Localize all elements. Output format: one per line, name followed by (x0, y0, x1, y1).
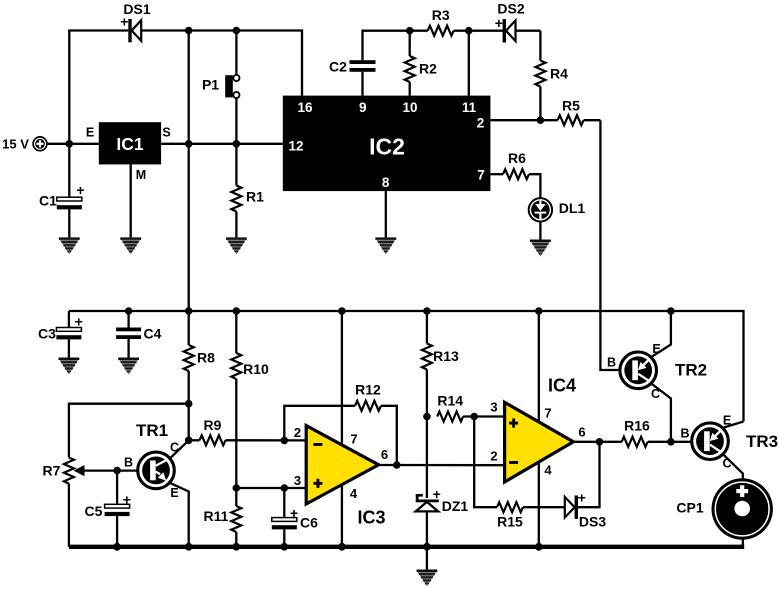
svg-text:DL1: DL1 (559, 200, 586, 216)
node bottom bus R11 (232, 543, 240, 551)
svg-text:+: + (120, 13, 128, 29)
resistor R13 (422, 311, 459, 417)
resistor R2 (405, 31, 437, 96)
node IC4 output / DS3 (596, 438, 604, 446)
node bus C4 (125, 307, 133, 315)
node bottom bus DZ1/ground (423, 543, 431, 551)
svg-text:B: B (607, 356, 616, 370)
svg-text:+: + (578, 490, 586, 506)
svg-text:CP1: CP1 (676, 499, 703, 515)
regulator IC1 (86, 122, 171, 182)
resistor R3 (410, 7, 469, 36)
svg-text:S: S (162, 126, 170, 140)
wire TR3 emitter diagonal (724, 422, 744, 428)
svg-text:3: 3 (490, 400, 497, 415)
capacitor C3 (38, 311, 83, 358)
IC2 timer box (283, 96, 491, 192)
wire TR1 emitter diagonal and riser (171, 483, 189, 547)
svg-text:R16: R16 (624, 417, 650, 433)
svg-text:E: E (170, 486, 178, 500)
svg-text:+: + (495, 15, 503, 31)
node TR2 collector / TR3 base (667, 438, 675, 446)
node bottom bus C6 (280, 543, 288, 551)
svg-text:C4: C4 (144, 326, 162, 342)
ground DL1 (530, 240, 551, 257)
svg-text:R3: R3 (432, 7, 450, 23)
buzzer CP1 (676, 478, 773, 547)
op-amp IC3 (294, 311, 388, 547)
svg-text:IC1: IC1 (116, 134, 144, 154)
pushbutton P1 (202, 31, 240, 144)
node top rail x188.7 (185, 27, 193, 35)
svg-text:10: 10 (402, 100, 417, 115)
wire TR2 emitter to bus (652, 311, 671, 357)
capacitor C2 (329, 31, 410, 96)
ground R1 (226, 237, 247, 254)
svg-text:7: 7 (477, 167, 485, 182)
node TR1 base / C5 (113, 467, 121, 475)
svg-text:7: 7 (544, 405, 551, 420)
op-amp IC4 (490, 311, 585, 547)
node R2 top (406, 27, 414, 35)
svg-text:12: 12 (288, 139, 303, 154)
wire TR3 collector to CP1 (724, 455, 743, 480)
node pin11 top (465, 27, 473, 35)
svg-text:15 V: 15 V (2, 136, 29, 151)
wire R12 feedback loop (284, 406, 355, 441)
svg-text:C1: C1 (39, 193, 57, 209)
svg-text:R9: R9 (204, 417, 222, 433)
wire IC2 pin2 (490, 119, 557, 121)
svg-text:R10: R10 (243, 361, 269, 377)
wire R7 top link (69, 404, 189, 458)
svg-text:2: 2 (294, 425, 301, 440)
svg-text:6: 6 (578, 424, 585, 439)
wire IC3 output to IC4 pin2 (379, 464, 505, 467)
wire long vertical rail x188.7 top part (188, 31, 190, 346)
wire IC4 feedback riser (474, 417, 497, 508)
svg-text:TR2: TR2 (675, 360, 707, 379)
resistor R15 (497, 502, 565, 529)
node bus IC4 pin7 (535, 307, 543, 315)
svg-text:B: B (124, 455, 133, 469)
resistor R10 (231, 311, 269, 488)
capacitor C5 (85, 471, 131, 547)
wire IC1 S output (161, 143, 236, 145)
node pin2/R4 (537, 116, 545, 124)
ground IC1 M (120, 237, 141, 254)
ground main (417, 570, 438, 587)
diode DS1 (120, 1, 151, 42)
potentiometer R7 (43, 458, 74, 547)
svg-text:R13: R13 (433, 348, 459, 364)
capacitor C1 (39, 144, 85, 238)
node IC1 S junction (185, 140, 193, 148)
transistor TR3 (680, 413, 778, 470)
node bus rail x188.7 (185, 307, 193, 315)
svg-text:R15: R15 (497, 514, 523, 530)
svg-text:8: 8 (382, 175, 390, 190)
resistor R11 (204, 488, 242, 547)
svg-text:DS3: DS3 (579, 514, 606, 530)
node bus IC3 pin7 (338, 307, 346, 315)
svg-text:2: 2 (490, 448, 497, 463)
svg-text:R1: R1 (246, 189, 264, 205)
node input junction (66, 140, 74, 148)
svg-text:IC3: IC3 (357, 507, 385, 527)
svg-text:R7: R7 (43, 463, 61, 479)
svg-text:7: 7 (350, 431, 357, 446)
svg-text:IC2: IC2 (369, 134, 405, 160)
ground C1 (59, 237, 80, 254)
wire top supply bus (69, 311, 744, 422)
svg-text:9: 9 (359, 100, 367, 115)
LED DL1 (529, 198, 586, 239)
wire IC2 pin11 riser (468, 31, 470, 96)
ground C3 (59, 358, 80, 375)
transistor TR2 (607, 342, 707, 401)
svg-text:C5: C5 (85, 503, 103, 519)
wire top rail DS1 to IC2 pin16 (141, 31, 302, 96)
node C6 top (281, 484, 289, 492)
resistor R12 (355, 381, 397, 465)
node IC3 pin2 / R12 (281, 437, 289, 445)
wire IC2 pin8 lead (385, 191, 387, 237)
ground C4 (118, 358, 139, 375)
node bottom bus IC3 pin4 (338, 543, 346, 551)
resistor R6 (490, 150, 540, 200)
node P1/R1/pin12 junction (233, 140, 241, 148)
node top rail x236.4 (233, 27, 241, 35)
svg-text:6: 6 (381, 447, 388, 462)
wire 15V to node (47, 143, 99, 145)
wire left riser to top rail (69, 31, 128, 144)
svg-text:IC4: IC4 (548, 375, 576, 395)
wire TR2 collector riser (652, 384, 671, 442)
svg-text:11: 11 (462, 100, 477, 115)
zener DZ1 (416, 417, 469, 547)
wire IC2 pin12 (236, 143, 282, 145)
svg-text:4: 4 (544, 463, 552, 478)
wire TR1 base with wiper arrow (74, 465, 137, 476)
svg-text:R8: R8 (197, 350, 215, 366)
node bottom bus IC4 pin4 (535, 543, 543, 551)
15V input connector J1 (2, 136, 47, 151)
diode DS2 (469, 1, 541, 43)
node bottom bus C5 (113, 543, 121, 551)
node bus R13 (423, 307, 431, 315)
transistor TR1 (124, 421, 179, 500)
wire IC3 pin3 input (236, 487, 306, 489)
svg-text:3: 3 (294, 473, 301, 488)
capacitor C4 (116, 311, 162, 358)
svg-text:16: 16 (297, 100, 313, 115)
svg-text:P1: P1 (202, 76, 219, 92)
svg-text:C3: C3 (38, 326, 56, 342)
resistor R8 (184, 345, 215, 440)
node R8 / R7 wire (185, 400, 193, 408)
capacitor C6 (272, 488, 318, 547)
svg-text:R11: R11 (204, 508, 229, 524)
svg-text:R14: R14 (437, 392, 463, 408)
svg-text:E: E (86, 126, 94, 140)
resistor R1 (231, 144, 264, 238)
node bus TR2 emitter (667, 307, 675, 315)
diode DS3 (565, 442, 607, 530)
resistor R4 (535, 31, 568, 121)
svg-text:B: B (680, 427, 689, 441)
svg-text:+: + (76, 182, 84, 198)
node bottom bus TR1 emitter (185, 543, 193, 551)
svg-text:C6: C6 (300, 514, 318, 530)
svg-text:TR1: TR1 (136, 421, 168, 440)
svg-text:R2: R2 (419, 61, 437, 77)
node R13/R14/DZ1 (423, 413, 431, 421)
wire ground stub (426, 547, 428, 570)
node bus R10 (233, 307, 241, 315)
wire IC1 M lead (130, 164, 132, 237)
svg-text:M: M (136, 168, 146, 182)
svg-text:C2: C2 (329, 59, 347, 75)
node IC3 output / R12 (393, 461, 401, 469)
node R14 / feedback riser (470, 413, 478, 421)
wire R5 to TR2 base (600, 120, 618, 370)
svg-text:R5: R5 (562, 98, 580, 114)
wire IC4 output (573, 441, 621, 443)
svg-text:4: 4 (350, 486, 358, 501)
resistor R16 (622, 417, 691, 447)
ground IC2 pin8 (375, 237, 396, 254)
svg-text:R12: R12 (355, 381, 381, 397)
resistor R9 (189, 417, 307, 445)
svg-text:R6: R6 (508, 150, 526, 166)
svg-text:DZ1: DZ1 (442, 498, 469, 514)
wire TR1 collector diagonal (171, 440, 189, 458)
node R8 / R9 / TR1 collector (185, 437, 193, 445)
svg-text:2: 2 (477, 115, 485, 130)
resistor R14 (437, 392, 504, 421)
resistor R5 (558, 98, 601, 126)
svg-text:TR3: TR3 (746, 432, 778, 451)
node R10/R11/pin3 wire (233, 484, 241, 492)
svg-text:R4: R4 (550, 66, 568, 82)
wire bottom ground bus (69, 545, 744, 549)
